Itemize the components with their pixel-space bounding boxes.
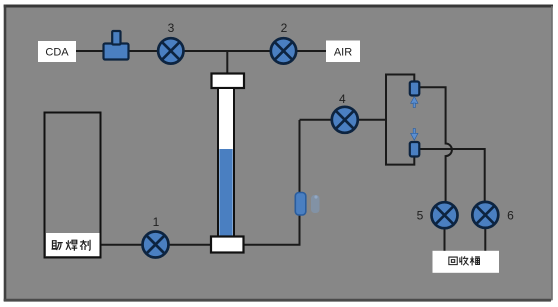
wire valve 2 to AIR — [294, 50, 326, 52]
valve 2 — [271, 38, 296, 63]
flow meter ghost reflection — [311, 195, 320, 213]
svg-text:3: 3 — [168, 21, 175, 35]
valve 1 — [143, 232, 169, 258]
column liquid level — [219, 149, 232, 236]
svg-text:5: 5 — [417, 209, 424, 223]
wire valve 1 to column bottom — [166, 244, 212, 246]
recovery tank box 回收桶 — [433, 251, 500, 273]
top nozzle — [410, 82, 420, 96]
wire riser to valve 4 — [300, 119, 335, 121]
svg-text:4: 4 — [339, 92, 346, 106]
valve 3 — [158, 38, 183, 63]
wire junction down to column top — [226, 51, 228, 75]
AIR outlet box — [326, 41, 360, 63]
wire manifold to top nozzle — [385, 75, 414, 84]
wire manifold to bottom nozzle — [385, 155, 414, 165]
flow meter — [295, 193, 306, 216]
wire valve 5 to recovery tank — [444, 226, 446, 252]
bottom nozzle flow arrow (down) — [411, 129, 418, 141]
svg-text:AIR: AIR — [334, 47, 352, 59]
tank 助焊剂 flux tank — [45, 113, 101, 258]
svg-text:2: 2 — [281, 21, 288, 35]
svg-text:6: 6 — [507, 209, 514, 223]
svg-text:CDA: CDA — [45, 47, 69, 59]
bottom nozzle — [410, 142, 420, 157]
column tube — [218, 88, 234, 237]
CDA source box — [38, 41, 76, 62]
wire top nozzle to valve 5 with crossover hop — [419, 87, 452, 204]
wire solenoid to valve 3 — [128, 50, 160, 52]
flux tank label box — [46, 233, 100, 256]
solenoid valve body — [104, 44, 129, 60]
svg-text:1: 1 — [153, 215, 160, 229]
column bottom cap — [211, 237, 244, 253]
column top cap — [212, 74, 245, 89]
wire valve 3 to valve 2 — [182, 50, 273, 52]
manifold header — [385, 75, 387, 165]
wire flux tank to valve 1 — [100, 244, 147, 246]
valve 4 — [332, 107, 358, 133]
wire valve 6 to recovery tank — [484, 226, 486, 252]
flux tank label text 助焊剂 — [52, 240, 91, 251]
wire valve 4 to manifold — [356, 119, 387, 121]
top nozzle flow arrow (up) — [411, 97, 418, 108]
wire CDA to solenoid — [76, 50, 104, 52]
solenoid valve stem — [112, 31, 120, 45]
wire column bottom to riser corner — [243, 120, 300, 245]
recovery tank label text 回收桶 — [449, 256, 480, 265]
wire bottom nozzle to valve 6 — [419, 149, 485, 204]
valve 5 — [432, 202, 458, 228]
valve 6 — [472, 202, 498, 228]
